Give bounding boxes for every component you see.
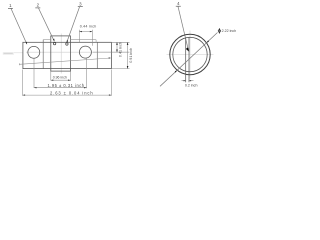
tab edge left: [43, 39, 51, 41]
tab corner right: [95, 40, 97, 43]
small hole left: [53, 42, 55, 44]
ring inner circle: [173, 37, 207, 71]
dim 0.96 inch: [50, 72, 52, 81]
svg-text:0.44 inch: 0.44 inch: [80, 25, 97, 29]
ring outer circle: [170, 34, 210, 74]
right hole: [79, 46, 91, 58]
dim 0.91 inch: [127, 42, 129, 68]
tab edge right: [71, 39, 97, 41]
dim 1.95 ± 0.31 inch: [33, 59, 35, 89]
diameter symbol: [218, 29, 220, 33]
faint block vertical centerline: [60, 34, 62, 74]
svg-text:0.41 inch: 0.41 inch: [118, 42, 122, 57]
sloped edge line: [19, 58, 110, 64]
svg-text:2.22 inch: 2.22 inch: [222, 29, 237, 33]
left hole: [28, 46, 40, 58]
svg-text:0.2 inch: 0.2 inch: [185, 84, 198, 88]
small hole right: [66, 43, 68, 45]
svg-text:2.63 ± 0.04 inch: 2.63 ± 0.04 inch: [50, 90, 94, 95]
svg-text:1.95 ± 0.31 inch: 1.95 ± 0.31 inch: [47, 83, 84, 88]
slot lines: [185, 38, 187, 82]
ring view centerlines: [167, 54, 214, 56]
dim 0.41 inch: [116, 42, 118, 52]
inner vertical edge right: [96, 42, 98, 68]
svg-text:0.91 inch: 0.91 inch: [129, 48, 133, 63]
plate outline: [23, 42, 112, 68]
inner vertical edge left: [42, 40, 44, 69]
faint hole centerline (front view): [26, 51, 129, 53]
diameter leader 2.22: [160, 33, 218, 87]
svg-text:0.96 inch: 0.96 inch: [53, 76, 67, 80]
right side vertical dims: [111, 41, 129, 43]
dim 0.2 inch (below ring): [182, 80, 186, 82]
faint gray diameter note (left): [3, 52, 14, 55]
center block: [51, 36, 71, 71]
dim 2.63 ± 0.04 inch: [22, 70, 24, 96]
